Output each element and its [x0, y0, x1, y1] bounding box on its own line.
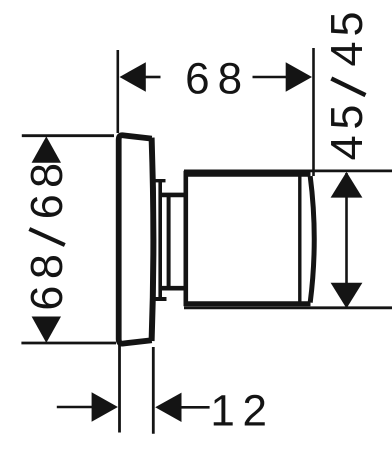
- svg-text:5: 5: [321, 105, 372, 130]
- top dimension 68: left extension line: [117, 50, 120, 133]
- right dimension 45: top extension line: [184, 169, 392, 172]
- handle: right cap (curved): [310, 176, 314, 302]
- left dimension 68/68: down arrowhead: [32, 317, 61, 343]
- top dimension 68: left dim line segment: [145, 76, 161, 79]
- valve collar: right edge: [158, 179, 162, 299]
- left dimension 68/68: slash: [29, 229, 65, 245]
- handle neck: contour line: [167, 193, 171, 290]
- escutcheon plate: outline (left/top/bottom): [119, 135, 152, 343]
- svg-text:6: 6: [21, 286, 72, 311]
- svg-text:8: 8: [21, 254, 72, 279]
- handle: front face line: [298, 174, 301, 306]
- svg-text:2: 2: [243, 387, 267, 436]
- top dimension 68: right dim line segment: [253, 76, 287, 79]
- right dimension 45: down arrowhead: [331, 283, 363, 309]
- bottom dimension 12: right dim line: [181, 406, 210, 409]
- svg-text:6: 6: [21, 194, 72, 219]
- escutcheon plate: right edge (thick, slightly curved): [152, 138, 154, 341]
- bottom dimension 12: right arrowhead (pointing left): [155, 393, 181, 422]
- bottom dimension 12: left dim line: [57, 406, 92, 409]
- svg-text:8: 8: [218, 54, 242, 103]
- bottom dimension 12: left arrowhead (pointing right): [92, 392, 118, 421]
- bottom dimension 12: left extension line: [118, 345, 121, 433]
- right dimension 45: up arrowhead: [331, 172, 363, 198]
- handle: top edge: [184, 172, 311, 177]
- svg-text:4: 4: [321, 135, 372, 160]
- bottom dimension 12: right extension line: [152, 347, 155, 434]
- valve collar: bottom cap: [151, 297, 167, 301]
- handle: left face line: [184, 171, 189, 306]
- top dimension 68: right extension line: [312, 48, 315, 176]
- left dimension 68/68: up arrowhead: [32, 136, 61, 162]
- valve collar: top cap: [156, 179, 166, 182]
- right label 45/45: slash: [331, 79, 365, 96]
- handle neck: top edge: [161, 193, 186, 198]
- svg-text:4: 4: [321, 41, 372, 66]
- left dimension 68/68: top extension line: [22, 134, 114, 137]
- svg-text:1: 1: [210, 387, 234, 436]
- svg-text:6: 6: [185, 54, 209, 103]
- right dimension 45: dim line: [345, 173, 348, 306]
- handle: bottom edge: [184, 301, 311, 306]
- right dimension 45: bottom extension line: [184, 306, 392, 309]
- handle neck: bottom edge: [161, 286, 186, 291]
- svg-text:5: 5: [321, 11, 372, 36]
- svg-text:8: 8: [21, 163, 72, 188]
- top dimension 68: right arrowhead: [286, 62, 312, 91]
- left dimension 68/68: bottom extension line: [21, 342, 116, 345]
- top dimension 68: left arrowhead: [120, 62, 146, 91]
